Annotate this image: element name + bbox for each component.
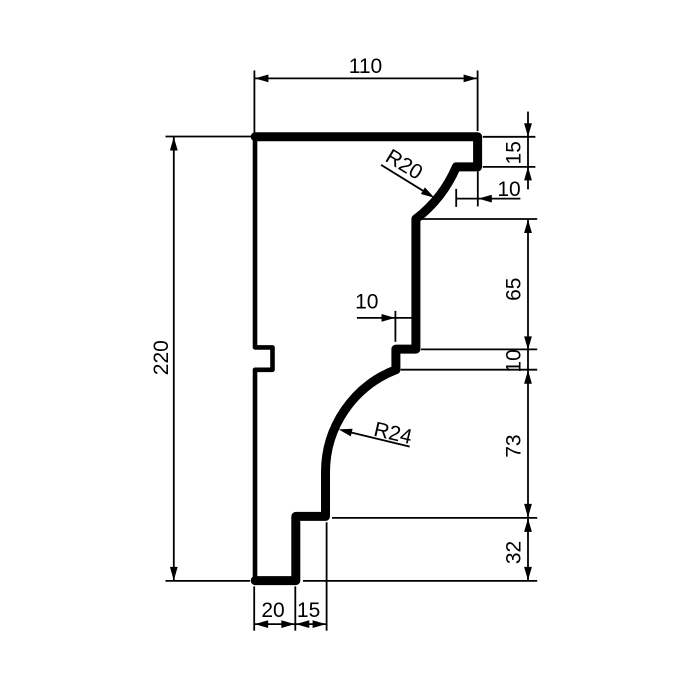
dimension line: bottom 20/15 [254, 623, 326, 625]
extension line: step width 10 (x=395.4) [394, 311, 396, 342]
leader line: R20 [381, 165, 430, 195]
arrow: 32 bottom (down) [524, 567, 532, 581]
extension line: bottom dim x=295.3 [294, 586, 296, 630]
arrow: 65 bottom / small10 (down) [524, 336, 532, 350]
arrow: 10 (points left) [478, 195, 492, 203]
svg-text:15: 15 [297, 599, 320, 622]
arrow: 15 lower (points up) [524, 167, 532, 181]
svg-text:10: 10 [497, 178, 520, 201]
svg-text:220: 220 [150, 340, 173, 375]
svg-text:65: 65 [503, 278, 526, 301]
extension line: small10 bottom / 73 top (y=369.7) [401, 369, 538, 371]
extension line: 220 bottom (y=580.9) [166, 580, 251, 582]
arrow: step width 10 (points right) [382, 314, 396, 322]
arrow: R20 leader [421, 187, 435, 197]
arrow: 15 upper (points down) [524, 123, 532, 137]
arrow: 220 top [170, 137, 178, 151]
dimension line: 10 horizontal [456, 198, 520, 200]
arrow: 20 left [255, 620, 269, 628]
dimension line: right chain 65/10/73/32 [527, 220, 529, 581]
extension line: 15 top (y=136.8) [483, 136, 536, 138]
svg-text:110: 110 [349, 55, 382, 78]
dimension line: 220 left [173, 137, 175, 581]
extension line: 10 right (x=477.8) [477, 171, 479, 206]
extension line: 15 bottom (y=166.9) [483, 166, 536, 168]
extension line: bottom dim x=254.2 [253, 586, 255, 630]
extension line: 73 bottom / 32 top (y=517.9) [332, 517, 537, 519]
extension line: 65 bottom / small10 top (y=349.4) [421, 348, 537, 350]
arrow: 110 left [255, 75, 269, 83]
arrow: 15 left [296, 620, 310, 628]
svg-text:20: 20 [261, 599, 284, 622]
profile: main moulding outline (thick stroke) [255, 137, 477, 581]
dimension line: step width 10 [357, 317, 412, 319]
extension line: 220 top (y=136.5) [166, 136, 252, 138]
svg-text:32: 32 [503, 541, 526, 564]
arrow: 20 right [281, 620, 295, 628]
extension line: 32 bottom (y=580.9) [303, 580, 537, 582]
arrow: R24 leader [339, 429, 353, 437]
arrow: 73 bottom (down) [524, 504, 532, 518]
dimension line: 110 top [254, 77, 477, 79]
arrow: 220 bottom [170, 567, 178, 581]
extension line: top dim right (x=477.6) [477, 71, 479, 132]
extension line: 65 top (y=219.0) [421, 218, 538, 220]
profile: left face with drip notch (thin stroke) [255, 137, 273, 581]
dimension line: 15 right [527, 112, 529, 190]
svg-text:73: 73 [503, 434, 526, 457]
svg-text:10: 10 [503, 349, 526, 372]
arrow: 32 top (up) [524, 518, 532, 532]
svg-text:10: 10 [355, 290, 378, 313]
svg-text:15: 15 [503, 141, 526, 164]
extension line: top dim left (x=254.4) [253, 71, 255, 134]
arrow: 65 top (up) [524, 220, 532, 234]
arrow: small10 bottom / 73 top (up) [524, 370, 532, 384]
extension line: 10 left (x=456.2) [455, 189, 457, 207]
leader line: R24 [344, 431, 410, 447]
arrow: 110 right [464, 75, 478, 83]
arrow: 15 right [313, 620, 327, 628]
extension line: bottom dim x=326.6 [326, 522, 328, 630]
